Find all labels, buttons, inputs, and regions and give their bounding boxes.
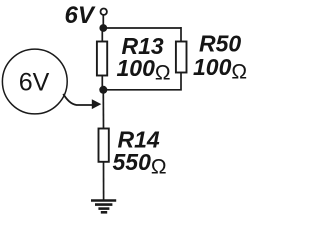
label 550Ω (R14 value) <box>113 149 167 179</box>
wire R50 bottom to node B <box>103 73 181 90</box>
svg-text:6V: 6V <box>65 2 96 29</box>
label 100Ω (R13 value) <box>117 55 171 85</box>
label 6V node voltage <box>19 69 50 97</box>
label 6V supply <box>65 2 96 29</box>
wire R13 to node B <box>102 76 103 90</box>
label R14 <box>118 127 160 153</box>
node A junction dot <box>99 24 107 32</box>
wire node B down to R14 <box>102 92 104 129</box>
label R13 <box>122 33 164 59</box>
label R50 <box>199 31 241 57</box>
wire terminal to node A <box>102 15 104 25</box>
resistor R13 <box>97 42 107 76</box>
svg-text:R50: R50 <box>199 31 241 57</box>
node B junction dot <box>99 86 107 94</box>
annotation circle (node voltage bubble) <box>2 49 67 114</box>
terminal 6V supply (open circle) <box>101 9 107 15</box>
wire node A down to R13 <box>101 30 103 42</box>
resistor R14 <box>99 129 109 162</box>
svg-text:100Ω: 100Ω <box>193 54 247 84</box>
wire R50 branch top vertical <box>180 27 182 42</box>
svg-text:100Ω: 100Ω <box>117 55 171 85</box>
label 100Ω (R50 value) <box>193 54 247 84</box>
wire R14 to ground <box>103 162 105 200</box>
wire node A to R50 branch (horizontal) <box>103 27 181 29</box>
svg-text:550Ω: 550Ω <box>113 149 167 179</box>
ground symbol <box>91 201 116 213</box>
resistor R50 <box>176 42 187 73</box>
svg-text:6V: 6V <box>19 69 50 97</box>
arrow annotation from bubble to node B <box>63 94 101 109</box>
